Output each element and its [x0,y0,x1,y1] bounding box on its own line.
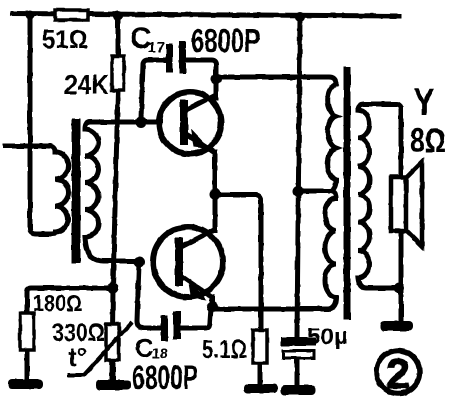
ground G4 under 50u [281,385,316,395]
transistor Q1 emitter arrow [191,129,210,149]
svg-text:2: 2 [386,350,409,397]
wire Q2 emitter to node [210,297,215,307]
wire C17 left lead down to Q1 base node [141,60,168,119]
resistor R2 2.4K box [112,56,124,90]
resistor R3 180 ohm box [20,313,34,350]
resistor R5 5.1 ohm box [253,330,267,363]
figure number circled 2 [377,351,420,394]
wire top supply rail [13,14,399,17]
speaker Y horn [405,162,422,246]
node dot speaker/secondary [394,283,404,293]
wire 180 ohm branch [27,288,113,313]
transistor Q1 base bar [180,100,188,145]
wire base lead Q1 [141,120,160,125]
wire node to 5.1 ohm [215,195,261,330]
transistor Q2 emitter arrow [188,280,207,300]
svg-text:8Ω: 8Ω [410,122,446,160]
transistor Q2 base bar [175,238,183,286]
svg-text:180Ω: 180Ω [33,290,82,316]
capacitor C17 left plate [166,44,173,73]
resistor R1 51 ohm box [55,10,88,20]
node dot Q2 base [134,257,145,268]
wire 180 ohm bottom lead [25,350,30,379]
ground G3 under 5.1 ohm [244,384,278,393]
capacitor C19 50u bottom plate [283,351,314,358]
node dot 180 ohm / 330 ohm [108,283,119,294]
capacitor C17 right plate [179,41,186,74]
node dot rail/left vertical [26,11,35,20]
ground G2 under thermistor [96,380,131,390]
wire 5.1 ohm bottom lead [258,363,263,385]
svg-text:t°: t° [68,342,87,372]
wire collector stub Q1 [214,79,219,98]
svg-text:Y: Y [413,82,435,124]
resistor R4 330 ohm thermistor box [106,324,119,360]
wire thermistor bottom lead [111,360,116,381]
node dot Q2 emitter [207,302,218,313]
svg-text:5.1Ω: 5.1Ω [202,334,247,364]
thermistor diagonal stroke [67,322,132,375]
svg-text:24K: 24K [64,69,109,100]
svg-text:51Ω: 51Ω [42,24,88,54]
node dot Q1 base [136,117,147,128]
capacitor C19 50u top plate [281,337,316,346]
transistor Q2 emitter stroke [181,276,213,298]
node dot C17/collector [211,74,222,85]
wire speaker vertical [399,109,404,322]
transformer T2 output primary upper winding [298,84,336,191]
wire input stub from left edge [5,144,50,149]
node dot rail/middle line [295,12,305,22]
node dot rail/2.4K [113,11,123,21]
wire main middle rail x298 from top rail to 50u [297,17,300,337]
transformer T2 core [344,70,351,316]
wire left vertical from rail to primary bottom [30,15,51,234]
transistor Q2 circle [153,227,223,297]
wire Q1 emitter / Q2 collector link [213,152,218,230]
svg-text:6800P: 6800P [132,359,198,397]
transformer T1 secondary winding [85,122,139,261]
transformer T2 output primary lower winding [214,191,336,309]
transformer T1 input primary winding [48,146,69,234]
ground G1 under 180 ohm [8,379,43,389]
wire C17 right lead to collector node [185,60,216,77]
transistor Q2 collector stroke [181,229,216,247]
capacitor C18 right plate [173,311,181,339]
transistor Q1 circle [159,92,221,154]
svg-text:50µ: 50µ [307,323,348,349]
transistor Q1 collector stroke [186,94,217,110]
capacitor C18 left plate [161,315,168,341]
wire C18 left lead from Q2 base node [137,264,162,328]
wire 50u bottom lead [295,359,300,385]
speaker Y box [391,177,406,231]
transistor Q1 emitter stroke [186,134,216,153]
node dot center tap [293,186,304,197]
transformer T2 secondary winding [358,104,401,110]
svg-text:17: 17 [148,39,165,56]
wire collector node to output transformer primary top [216,77,336,84]
wire C18 right lead up to Q2 emitter node [181,308,211,328]
ground G5 under speaker [380,321,413,331]
transformer T1 core [72,123,81,259]
wire 2.4K branch from rail to 330 ohm ground [116,16,121,57]
svg-text:6800P: 6800P [191,22,260,59]
node dot emitter/collector [210,189,221,200]
